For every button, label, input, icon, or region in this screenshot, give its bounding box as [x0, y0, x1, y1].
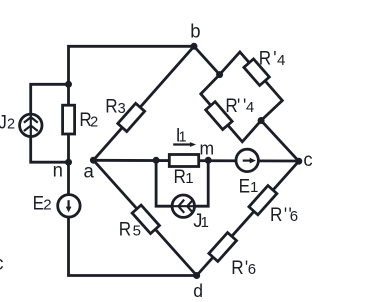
current source J1 circle [172, 195, 194, 217]
current source J2 circle [20, 114, 42, 136]
svg-text:c: c [303, 149, 312, 171]
wire J2 branch [31, 84, 69, 162]
E2 symbol interior (arrow down) [67, 200, 69, 207]
E1 symbol interior (arrow right) [243, 160, 251, 162]
svg-text:2: 2 [7, 117, 15, 133]
svg-text:m: m [200, 138, 215, 159]
svg-text:R: R [174, 165, 186, 187]
svg-text:R: R [270, 203, 282, 225]
node c [295, 158, 302, 165]
wire diamond to node c [261, 121, 299, 162]
label J2 [0, 111, 15, 133]
svg-text:R: R [225, 94, 237, 116]
svg-text:b: b [190, 21, 200, 43]
resistor R1 [169, 155, 198, 167]
svg-text:R: R [119, 217, 131, 239]
wire diagonal a-b [93, 46, 194, 160]
label R5 [119, 217, 141, 239]
label R''4 [225, 94, 254, 116]
resistor R2 [63, 105, 75, 134]
svg-text:1: 1 [201, 214, 209, 231]
svg-text:J: J [0, 111, 7, 133]
voltage source E2 circle [58, 195, 80, 217]
label R3 [105, 95, 125, 117]
svg-text:R: R [259, 47, 271, 69]
wire diamond upper branch (R'4 path) [220, 52, 283, 121]
node d [193, 272, 200, 279]
label R2 [79, 108, 98, 130]
label R'6 [231, 256, 256, 278]
E2 arrow head [66, 207, 72, 213]
svg-text:4: 4 [246, 99, 254, 116]
wire diagonal a-d [93, 160, 196, 275]
wire diamond lower branch (R''4 path) [201, 75, 261, 142]
svg-text:2: 2 [90, 114, 98, 130]
wire J1 parallel loop [156, 160, 208, 206]
voltage source E1 circle [236, 149, 258, 171]
svg-text:E: E [239, 174, 250, 196]
I1 current arrow [173, 142, 196, 147]
svg-text:5: 5 [133, 223, 141, 240]
wire diagonal b to diamond left node [194, 46, 220, 74]
svg-text:1: 1 [185, 170, 193, 187]
node a [90, 157, 97, 164]
svg-text:d: d [193, 281, 203, 302]
resistor R''6 [249, 186, 277, 215]
resistor R'6 [209, 233, 237, 262]
svg-text:': ' [284, 203, 287, 225]
svg-text:1: 1 [179, 130, 187, 146]
node diamond-left junction [216, 71, 223, 78]
resistor R''4 [206, 102, 232, 130]
J1 symbol interior (horizontal line, double chevron left) [173, 205, 195, 207]
node m [205, 157, 212, 164]
node diamond-bottom junction [258, 117, 265, 124]
node n [65, 159, 72, 166]
node b [191, 43, 198, 50]
resistor R5 [132, 205, 159, 233]
wire top-left outer loop (top wire, left vertical, bottom wire) [69, 46, 197, 275]
J2 symbol interior (vertical line, double chevron up) [30, 115, 32, 137]
svg-text:': ' [237, 94, 240, 116]
node R1-left junction [153, 157, 160, 164]
resistor R3 [118, 103, 145, 131]
node J2 tap junction [65, 81, 72, 88]
svg-text:6: 6 [248, 261, 256, 278]
svg-text:R: R [231, 256, 243, 278]
wire diagonal d-c [197, 161, 299, 275]
label I1 [176, 124, 187, 146]
label E1 [239, 174, 259, 196]
svg-text:n: n [53, 160, 63, 182]
svg-text:4: 4 [277, 52, 285, 69]
resistor R'4 [244, 59, 269, 85]
svg-text:c: c [0, 253, 3, 275]
label E2 [33, 191, 52, 213]
label R'4 [259, 47, 286, 69]
label R''6 [270, 203, 298, 225]
svg-text:R: R [105, 95, 117, 117]
E1 arrow head [250, 158, 256, 164]
wire main horizontal a-m-c [93, 159, 298, 162]
svg-text:3: 3 [118, 101, 126, 117]
svg-text:1: 1 [250, 179, 258, 196]
svg-text:2: 2 [43, 197, 51, 214]
label J1 [193, 210, 209, 232]
svg-text:6: 6 [290, 208, 298, 225]
svg-text:a: a [84, 161, 95, 183]
label R1 [174, 165, 194, 187]
